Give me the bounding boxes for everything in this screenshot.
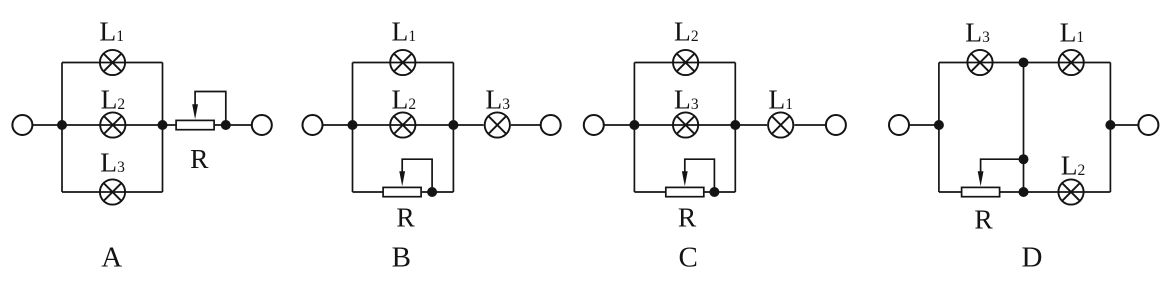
node junction C right — [730, 120, 740, 130]
wiper arrow C — [682, 171, 688, 186]
node junction D top middle — [1019, 58, 1029, 68]
wire bottom branch A — [62, 191, 163, 193]
wire wiper link A — [195, 92, 226, 126]
wire lamp L1 to terminal C — [794, 124, 826, 126]
lamp L3 D — [967, 50, 992, 75]
node junction C left — [629, 120, 639, 130]
wire bottom branch C — [634, 191, 735, 193]
wiper arrow A — [192, 104, 198, 119]
terminal right C — [826, 115, 846, 135]
resistor R body C — [666, 187, 704, 196]
wiper arrow D — [978, 171, 984, 186]
wire top branch A — [62, 62, 163, 64]
svg-text:L2: L2 — [674, 16, 699, 47]
resistor R body B — [383, 187, 421, 196]
terminal right B — [541, 115, 561, 135]
svg-text:L1: L1 — [768, 84, 793, 115]
lamp L3 C — [673, 112, 698, 137]
svg-text:D: D — [1022, 242, 1043, 274]
resistor R body A — [176, 120, 214, 129]
svg-text:L3: L3 — [674, 84, 699, 115]
svg-text:A: A — [101, 241, 122, 273]
svg-text:L3: L3 — [485, 84, 510, 115]
wire top branch D — [939, 62, 1111, 64]
wire top branch C — [634, 62, 735, 64]
svg-text:R: R — [678, 202, 697, 233]
svg-text:L1: L1 — [1060, 16, 1085, 47]
wire to lamp L3 B — [453, 124, 483, 126]
terminal left C — [584, 115, 604, 135]
wire main horizontal A — [32, 124, 176, 126]
wire bottom branch D — [939, 191, 1111, 193]
svg-text:L2: L2 — [392, 84, 417, 115]
node junction D wiper — [1019, 154, 1029, 164]
svg-text:R: R — [396, 202, 415, 233]
wire lamp L3 to terminal B — [511, 124, 541, 126]
lamp L1 B — [390, 50, 415, 75]
node junction D left — [934, 120, 944, 130]
wire bottom branch B — [353, 191, 454, 193]
node junction A wiper — [221, 120, 231, 130]
lamp L1 D — [1059, 50, 1084, 75]
lamp L3 B — [485, 112, 510, 137]
wire terminal to left rail D — [909, 124, 939, 126]
wire main horizontal C — [603, 124, 735, 126]
wire right rail D — [1109, 63, 1111, 193]
wire wiper link D — [981, 159, 1024, 173]
node junction B wiper — [427, 187, 437, 197]
lamp L1 A — [100, 50, 125, 75]
node junction C wiper — [709, 187, 719, 197]
svg-text:R: R — [974, 203, 993, 234]
wire right rail C — [734, 63, 736, 193]
terminal right D — [1138, 115, 1158, 135]
wire left rail C — [633, 63, 635, 193]
svg-text:L3: L3 — [100, 147, 125, 178]
lamp L1 C — [768, 112, 793, 137]
svg-text:B: B — [392, 242, 411, 274]
svg-text:L3: L3 — [965, 16, 990, 47]
svg-text:R: R — [190, 143, 209, 174]
node junction D right — [1105, 120, 1115, 130]
svg-text:L1: L1 — [392, 16, 417, 47]
wire main horizontal B — [322, 124, 453, 126]
wire to lamp L1 C — [735, 124, 767, 126]
terminal left B — [303, 115, 323, 135]
lamp L2 A — [100, 112, 125, 137]
node junction B left — [348, 120, 358, 130]
svg-text:L2: L2 — [101, 84, 126, 115]
svg-text:C: C — [679, 242, 698, 274]
terminal right A — [252, 115, 272, 135]
svg-text:L1: L1 — [99, 16, 124, 47]
node junction D bottom middle — [1019, 187, 1029, 197]
wiper arrow B — [399, 171, 405, 186]
wire right rail A — [162, 63, 164, 193]
wire middle rail D — [1023, 63, 1025, 193]
wire left rail B — [352, 63, 354, 193]
terminal left D — [889, 115, 909, 135]
node junction A right rail — [158, 120, 168, 130]
lamp L2 B — [390, 112, 415, 137]
wire left rail D — [938, 63, 940, 193]
wire rheostat output A — [214, 124, 252, 126]
node junction B right — [448, 120, 458, 130]
svg-text:L2: L2 — [1061, 150, 1086, 181]
wire right rail to terminal D — [1110, 124, 1139, 126]
wire right rail B — [452, 63, 454, 193]
lamp L3 A — [100, 179, 125, 204]
lamp L2 D — [1058, 179, 1083, 204]
lamp L2 C — [673, 50, 698, 75]
wire wiper link B — [402, 159, 432, 192]
wire top branch B — [353, 62, 454, 64]
node junction A left — [57, 120, 67, 130]
resistor R body D — [962, 187, 1000, 196]
terminal left A — [12, 115, 32, 135]
wire left rail A — [61, 63, 63, 193]
wire wiper link C — [685, 159, 715, 192]
